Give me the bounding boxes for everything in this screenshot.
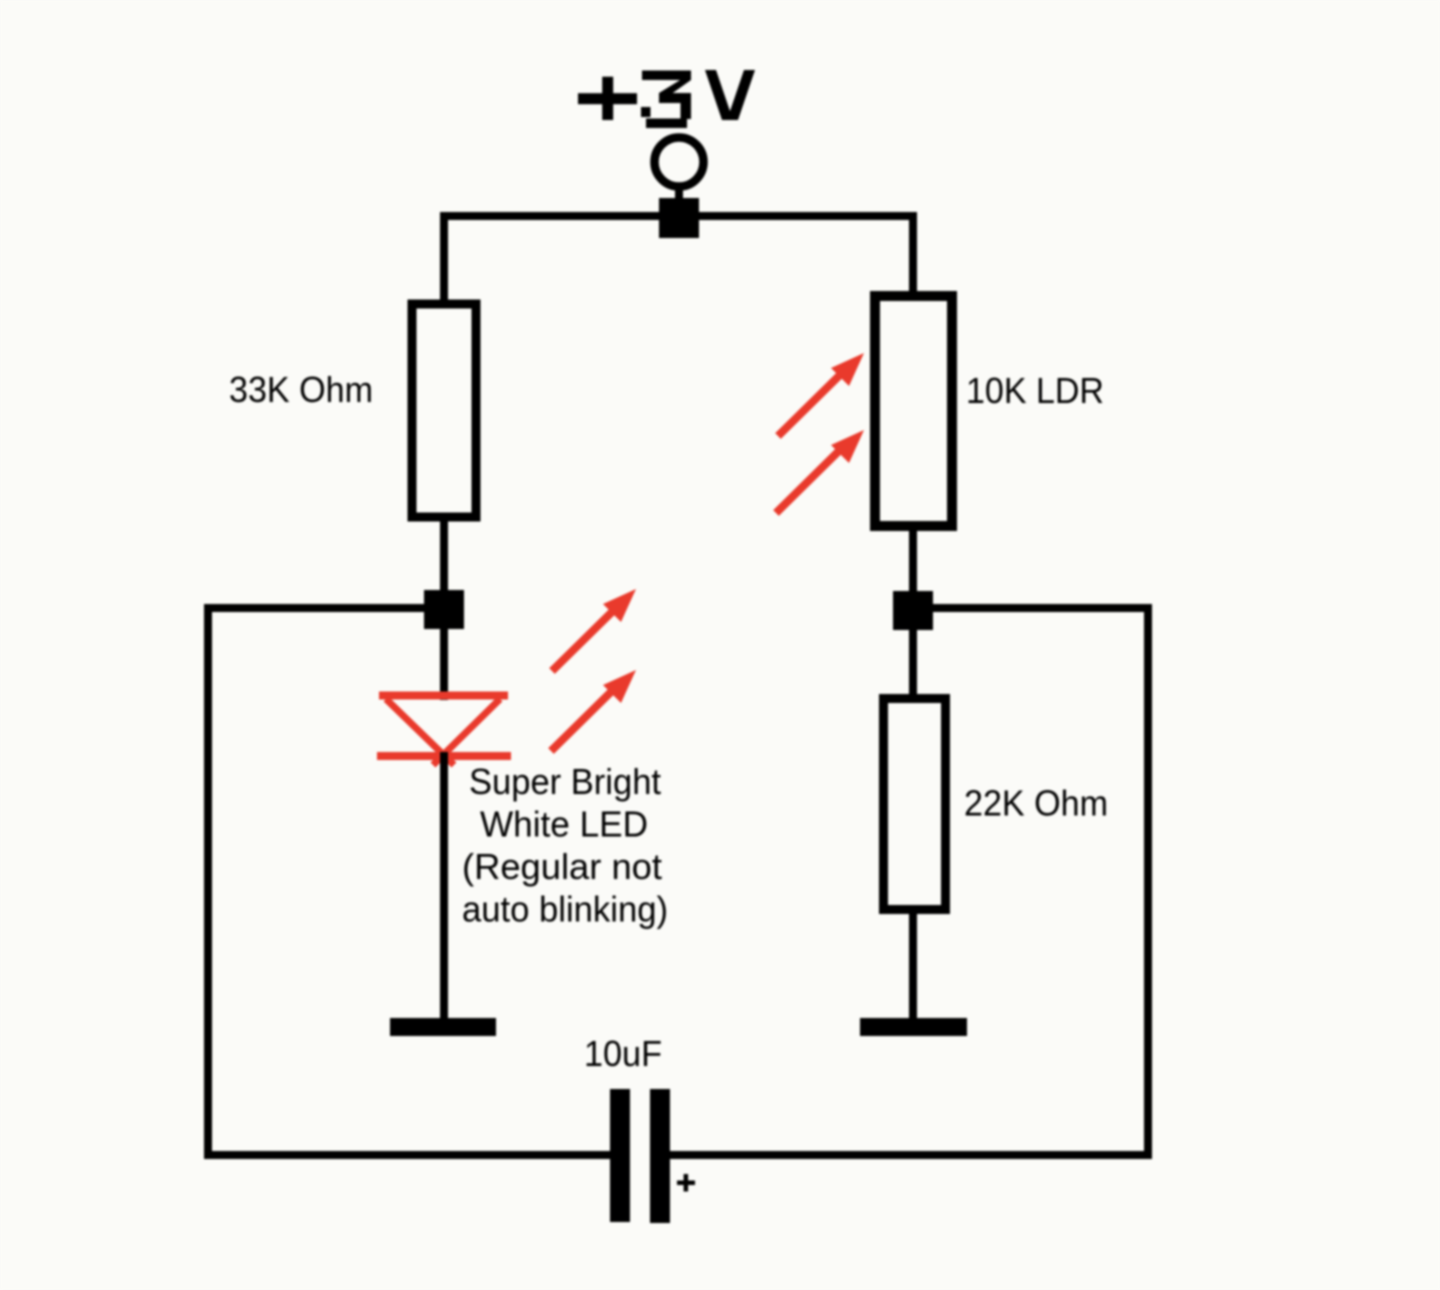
wire rail to LDR (909, 212, 917, 296)
svg-text:33K Ohm: 33K Ohm (229, 369, 373, 410)
wire top rail (444, 212, 913, 220)
svg-text:10uF: 10uF (584, 1033, 662, 1074)
LED light arrow lower (551, 670, 636, 751)
resistor 33K Ohm (412, 304, 476, 517)
LDR light arrow upper (778, 353, 864, 436)
wire rail to 33K resistor (440, 212, 448, 304)
label Super Bright White LED (462, 761, 668, 930)
wire LDR bottom to junction (909, 527, 917, 595)
svg-text:10K LDR: 10K LDR (966, 370, 1104, 411)
svg-text:22K Ohm: 22K Ohm (964, 783, 1108, 824)
wire LED cathode to ground (440, 752, 448, 1022)
ground right (860, 1018, 967, 1036)
wire left loop (junction to capacitor) (208, 608, 612, 1155)
svg-text:Super Bright: Super Bright (469, 761, 661, 802)
wire 22K bottom to ground (909, 909, 917, 1022)
junction top node (659, 198, 699, 238)
svg-text:auto blinking): auto blinking) (462, 889, 668, 930)
wire junction to 22K resistor (909, 625, 917, 702)
LDR 10K (875, 296, 952, 526)
node +3V label (578, 70, 755, 128)
LDR light arrow lower (776, 430, 864, 513)
wire 33K bottom to junction (440, 517, 448, 594)
wire stub from terminal to junction (675, 186, 683, 202)
LED light arrow upper (552, 589, 636, 671)
node +3V terminal circle (655, 138, 704, 187)
ground left (390, 1018, 496, 1036)
wire right loop (junction to capacitor) (669, 608, 1148, 1155)
resistor 22K Ohm (884, 699, 946, 910)
capacitor C1 10uF (610, 1089, 630, 1222)
wire junction to LED anode (440, 625, 448, 700)
junction left node (424, 590, 464, 629)
capacitor polarity plus (677, 1174, 695, 1192)
LED D1 symbol (377, 696, 511, 766)
svg-text:White LED: White LED (480, 804, 648, 845)
junction right node (893, 591, 933, 630)
svg-text:(Regular not: (Regular not (462, 846, 662, 887)
